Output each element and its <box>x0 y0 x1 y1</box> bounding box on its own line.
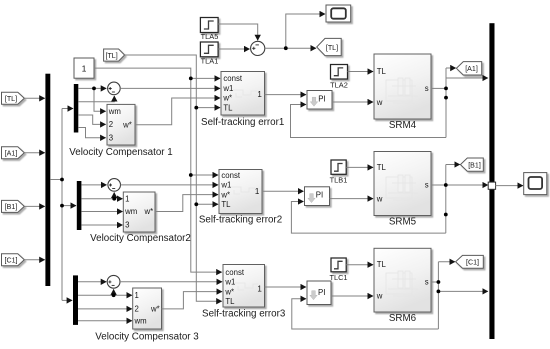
svg-text:Velocity Compensator2: Velocity Compensator2 <box>90 233 191 244</box>
svg-text:1: 1 <box>257 284 262 293</box>
wire demux3 out1 to sum3 <box>78 281 106 283</box>
junction trunk-mux <box>60 178 64 182</box>
svg-text:const: const <box>223 74 242 83</box>
wire [TL] to mux <box>24 97 44 99</box>
svg-text:w*: w* <box>144 207 154 216</box>
svg-text:SRM4: SRM4 <box>389 120 417 131</box>
svg-text:3: 3 <box>125 221 129 230</box>
from tag [C1] left <box>2 254 25 266</box>
from tag [TL] top <box>104 49 125 61</box>
PI controller 1 <box>307 91 332 110</box>
wire feedback row3 to PI3 <box>292 299 439 329</box>
wire demux3 out3 to port2 <box>78 308 132 310</box>
junction const row2 <box>189 173 193 177</box>
sum3 plus <box>108 280 111 283</box>
svg-text:[B1]: [B1] <box>5 203 18 211</box>
junction feedback row2 <box>444 213 448 217</box>
junction sum3 minus <box>112 293 116 297</box>
svg-text:TLA2: TLA2 <box>330 81 348 90</box>
self-tracking error1 <box>221 72 265 116</box>
junction sum2 minus <box>112 197 116 201</box>
svg-text:wm: wm <box>108 107 121 116</box>
wire PI1 to SRM4 w <box>332 101 373 103</box>
junction feedback row1 <box>444 96 448 100</box>
svg-text:w*: w* <box>224 287 234 296</box>
sum2 <box>108 179 121 192</box>
SRM6 <box>374 248 431 312</box>
goto tag [C1] <box>456 255 484 268</box>
svg-text:s: s <box>425 84 429 93</box>
wire to goto A1 <box>446 67 456 69</box>
sum3 minus <box>112 284 115 286</box>
self-tracking error2 <box>219 170 262 214</box>
wire sum2 to w1 <box>121 184 219 186</box>
svg-text:TLA5: TLA5 <box>201 32 219 41</box>
wire const net <box>94 68 222 272</box>
junction wm branch <box>92 87 96 91</box>
svg-text:Velocity Compensator 3: Velocity Compensator 3 <box>95 332 199 343</box>
wire TLA1 to sum left <box>218 48 249 50</box>
wire demux1 out2 to sum1 minus <box>78 96 114 102</box>
goto tag [B1] <box>460 158 483 171</box>
SRM5 <box>374 152 431 216</box>
wire demux1 out1 to sum1 <box>78 87 106 89</box>
sum3 <box>107 275 120 288</box>
goto tag [A1] <box>456 62 481 75</box>
wire TLA2 to SRM4 TL <box>348 71 374 73</box>
junction TL row1 <box>194 106 198 110</box>
svg-text:s: s <box>425 278 429 287</box>
wire SRM4 s out <box>431 87 446 89</box>
wire error2 to PI2 <box>262 190 303 192</box>
wire error1 to PI1 <box>265 94 306 96</box>
svg-text:w: w <box>376 195 383 204</box>
wire feedback row1 to PI1 <box>291 105 447 138</box>
wire to right mux row3 <box>438 290 487 292</box>
svg-text:[TL]: [TL] <box>5 95 17 103</box>
SRM4 <box>374 54 431 119</box>
svg-text:TL: TL <box>221 200 231 209</box>
svg-text:w1: w1 <box>224 278 235 287</box>
wire [C1] to mux <box>24 259 44 261</box>
svg-text:[C1]: [C1] <box>466 259 479 267</box>
svg-text:SRM5: SRM5 <box>389 217 417 228</box>
svg-text:TL: TL <box>377 67 387 76</box>
svg-text:2: 2 <box>135 305 139 314</box>
wire [B1] to mux <box>24 205 44 207</box>
step TLC1 <box>331 258 346 272</box>
svg-text:[TL]: [TL] <box>105 52 117 60</box>
svg-text:const: const <box>221 171 240 180</box>
step TLA2 <box>331 65 348 80</box>
junction trunk-demux2 <box>60 204 64 208</box>
from tag [TL] left <box>2 92 25 104</box>
wire sum to goto TL <box>265 47 316 49</box>
svg-text:1: 1 <box>82 64 87 74</box>
wire TL to error1 <box>196 107 220 109</box>
wire TLA5 to sum top <box>218 24 258 40</box>
svg-text:w1: w1 <box>222 84 233 93</box>
svg-text:1: 1 <box>135 291 139 300</box>
from tag [A1] left <box>2 147 25 159</box>
wire sum1 to w1 <box>120 87 220 89</box>
wire demux2 out2 to port1 <box>81 198 122 200</box>
svg-text:w*: w* <box>150 305 160 314</box>
wire const to error2 <box>191 174 218 176</box>
svg-text:w*: w* <box>222 94 232 103</box>
scope2 <box>524 173 547 195</box>
sum2 plus <box>109 184 112 187</box>
wire feedback row2 to PI2 <box>291 202 445 234</box>
svg-text:[B1]: [B1] <box>468 161 481 169</box>
sign plus left <box>252 47 255 50</box>
wire w*2 to error2 <box>155 195 218 212</box>
wire to goto C1 <box>438 261 455 263</box>
svg-text:TLC1: TLC1 <box>329 273 347 282</box>
mux output port marker <box>488 182 495 189</box>
svg-text:w1: w1 <box>220 181 231 190</box>
wire to right mux row1 <box>446 77 488 79</box>
svg-text:PI: PI <box>316 191 323 200</box>
wire branch to sum3 minus <box>113 289 115 295</box>
wire const to error1 <box>191 77 220 79</box>
svg-text:Self-tracking error3: Self-tracking error3 <box>202 309 286 320</box>
wire demux3 out2 to port1 <box>78 294 132 296</box>
wire branch to scope1 <box>286 14 325 48</box>
svg-text:w: w <box>376 292 383 301</box>
junction const row1 <box>189 77 193 81</box>
wire trunk vertical <box>61 109 63 301</box>
svg-text:TL: TL <box>377 163 387 172</box>
wire trunk to demux3 <box>62 299 72 301</box>
junction s row1 <box>444 87 448 91</box>
svg-text:Self-tracking error2: Self-tracking error2 <box>199 215 282 226</box>
self-tracking error3 <box>223 265 265 308</box>
wire s vertical row1 <box>445 68 447 138</box>
svg-text:w*: w* <box>220 190 230 199</box>
PI controller 3 <box>307 281 331 305</box>
wire demux2 out1 to sum2 <box>81 184 106 186</box>
demux bar 2 <box>77 181 82 230</box>
svg-text:1: 1 <box>125 194 129 203</box>
sum top (TL summer) <box>251 41 265 55</box>
junction mux row3 <box>437 290 441 294</box>
sum1 <box>108 82 121 95</box>
wire sum3 to w1 <box>120 281 222 283</box>
wire demux2 out4 to port3 <box>81 224 122 226</box>
step TLA5 <box>200 18 218 33</box>
svg-text:TL: TL <box>223 103 233 112</box>
velocity compensator 1 <box>107 104 135 145</box>
wire s vertical row2 <box>445 165 447 234</box>
svg-text:TLA1: TLA1 <box>201 57 219 66</box>
right mux bar <box>489 23 494 339</box>
svg-text:[C1]: [C1] <box>4 257 17 265</box>
svg-text:[A1]: [A1] <box>5 149 18 157</box>
junction TL row2 <box>194 202 198 206</box>
wire [A1] to mux <box>24 152 44 154</box>
wire TL net <box>125 55 222 301</box>
svg-text:3: 3 <box>109 134 113 143</box>
svg-text:TL: TL <box>225 297 235 306</box>
junction scope branch <box>284 46 288 50</box>
wire TLC1 to SRM6 TL <box>346 264 373 266</box>
wire to goto B1 <box>446 164 460 166</box>
svg-text:1: 1 <box>255 187 260 196</box>
wire w*3 to error3 <box>162 292 223 309</box>
svg-text:const: const <box>225 268 244 277</box>
wire trunk to demux2 <box>62 205 76 207</box>
svg-text:s: s <box>425 181 429 190</box>
sign minus top <box>256 44 259 46</box>
wire trunk to demux1 <box>62 108 73 110</box>
svg-text:2: 2 <box>109 120 113 129</box>
svg-text:PI: PI <box>318 288 325 297</box>
step TLB1 <box>331 160 346 174</box>
wire demux1 out3 to port2 <box>78 115 105 124</box>
constant block 1 <box>74 58 94 78</box>
wire demux1 out4 to port3 <box>78 128 105 138</box>
velocity compensator 3 <box>133 288 162 329</box>
wire PI2 to SRM5 w <box>330 198 374 200</box>
velocity compensator 2 <box>123 192 155 232</box>
svg-text:Velocity Compensator 1: Velocity Compensator 1 <box>69 147 172 158</box>
from tag [B1] left <box>2 200 25 212</box>
wire TL to error2 <box>196 203 218 205</box>
sum2 minus <box>112 188 115 190</box>
svg-text:TLB1: TLB1 <box>330 176 348 185</box>
svg-text:PI: PI <box>318 94 325 103</box>
step TLA1 <box>200 42 218 57</box>
svg-text:[A1]: [A1] <box>465 65 478 73</box>
svg-text:w: w <box>376 98 383 107</box>
PI controller 2 <box>305 187 330 206</box>
wire w* to error1 <box>135 98 220 125</box>
svg-text:wm: wm <box>134 317 147 326</box>
svg-text:TL: TL <box>377 260 387 269</box>
scope1 top <box>326 5 351 22</box>
wire TLB1 to SRM5 TL <box>346 166 373 168</box>
demux bar 1 <box>74 84 79 133</box>
wire error3 to PI3 <box>265 286 306 288</box>
goto tag [TL] top right <box>317 38 342 55</box>
big mux bar <box>45 74 50 286</box>
svg-text:wm: wm <box>124 207 137 216</box>
svg-text:Self-tracking error1: Self-tracking error1 <box>201 117 284 128</box>
sum1 minus <box>112 91 115 93</box>
junction s row2 <box>444 183 448 187</box>
svg-text:w*: w* <box>122 120 132 129</box>
wire branch to sum2 minus <box>113 193 115 199</box>
svg-text:[TL]: [TL] <box>326 44 338 52</box>
svg-text:1: 1 <box>257 90 262 99</box>
sum1 plus <box>109 87 112 90</box>
wire SRM6 s out <box>431 281 438 283</box>
svg-text:SRM6: SRM6 <box>389 313 417 324</box>
junction s row3 <box>437 280 441 284</box>
wire s vertical row3 <box>437 262 439 329</box>
wire PI3 to SRM6 w <box>331 295 373 297</box>
wire mux output trunk <box>50 179 62 181</box>
wire demux2 out3 to wm <box>81 211 122 213</box>
wire demux3 out4 to wm <box>78 320 132 322</box>
demux bar 3 <box>73 275 78 325</box>
wire SRM5 s to mux <box>431 184 488 186</box>
wire mux to scope2 <box>496 185 523 187</box>
wire branch to wm <box>94 88 106 111</box>
